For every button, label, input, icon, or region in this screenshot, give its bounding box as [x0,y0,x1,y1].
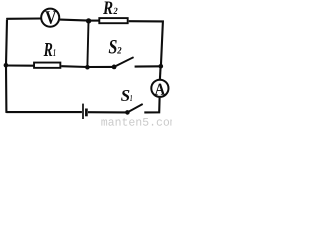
switch S1 lever (open) [127,104,142,112]
label S1 [121,90,132,101]
wire ammeter bottom to corner to S1 fixed contact [144,98,159,113]
label R2 [103,2,118,15]
wire bottom right segment S1 pivot to battery [88,111,127,113]
wire J4 to S2 pivot [87,66,114,68]
node J2 junction dot [159,64,164,69]
watermark manten5.com [101,118,176,126]
wire left vertical [6,19,7,113]
ammeter A [151,80,168,97]
wire voltmeter to node J1 [60,20,89,21]
wire bottom left segment battery to corner [6,111,82,113]
wire R2 to top-right corner and right vertical upper [129,21,163,66]
wire J2 down to ammeter top [159,66,162,79]
node J1 junction dot [86,18,91,23]
battery BT1 short thick plate (negative) [85,109,88,117]
label R1 [44,43,56,56]
battery BT1 long thin plate (positive) [82,104,84,119]
wire top-left horizontal [7,17,41,20]
wire S2 fixed contact to J2 [135,65,161,67]
resistor R1 [34,63,60,68]
wire J1 to R2 left lead [89,20,99,22]
switch S1 pivot dot [125,110,130,115]
voltmeter V [41,9,59,27]
node J3 junction dot [4,63,9,68]
wire J3 to R1 left lead [6,64,34,66]
label S2 [109,40,122,54]
wire J1 to J4 vertical [87,22,88,67]
switch S2 lever (open) [114,57,134,67]
resistor R2 [99,18,127,23]
switch S2 pivot dot [112,65,117,70]
wire R1 to node J4 [61,65,87,68]
node J4 junction dot [85,65,90,70]
